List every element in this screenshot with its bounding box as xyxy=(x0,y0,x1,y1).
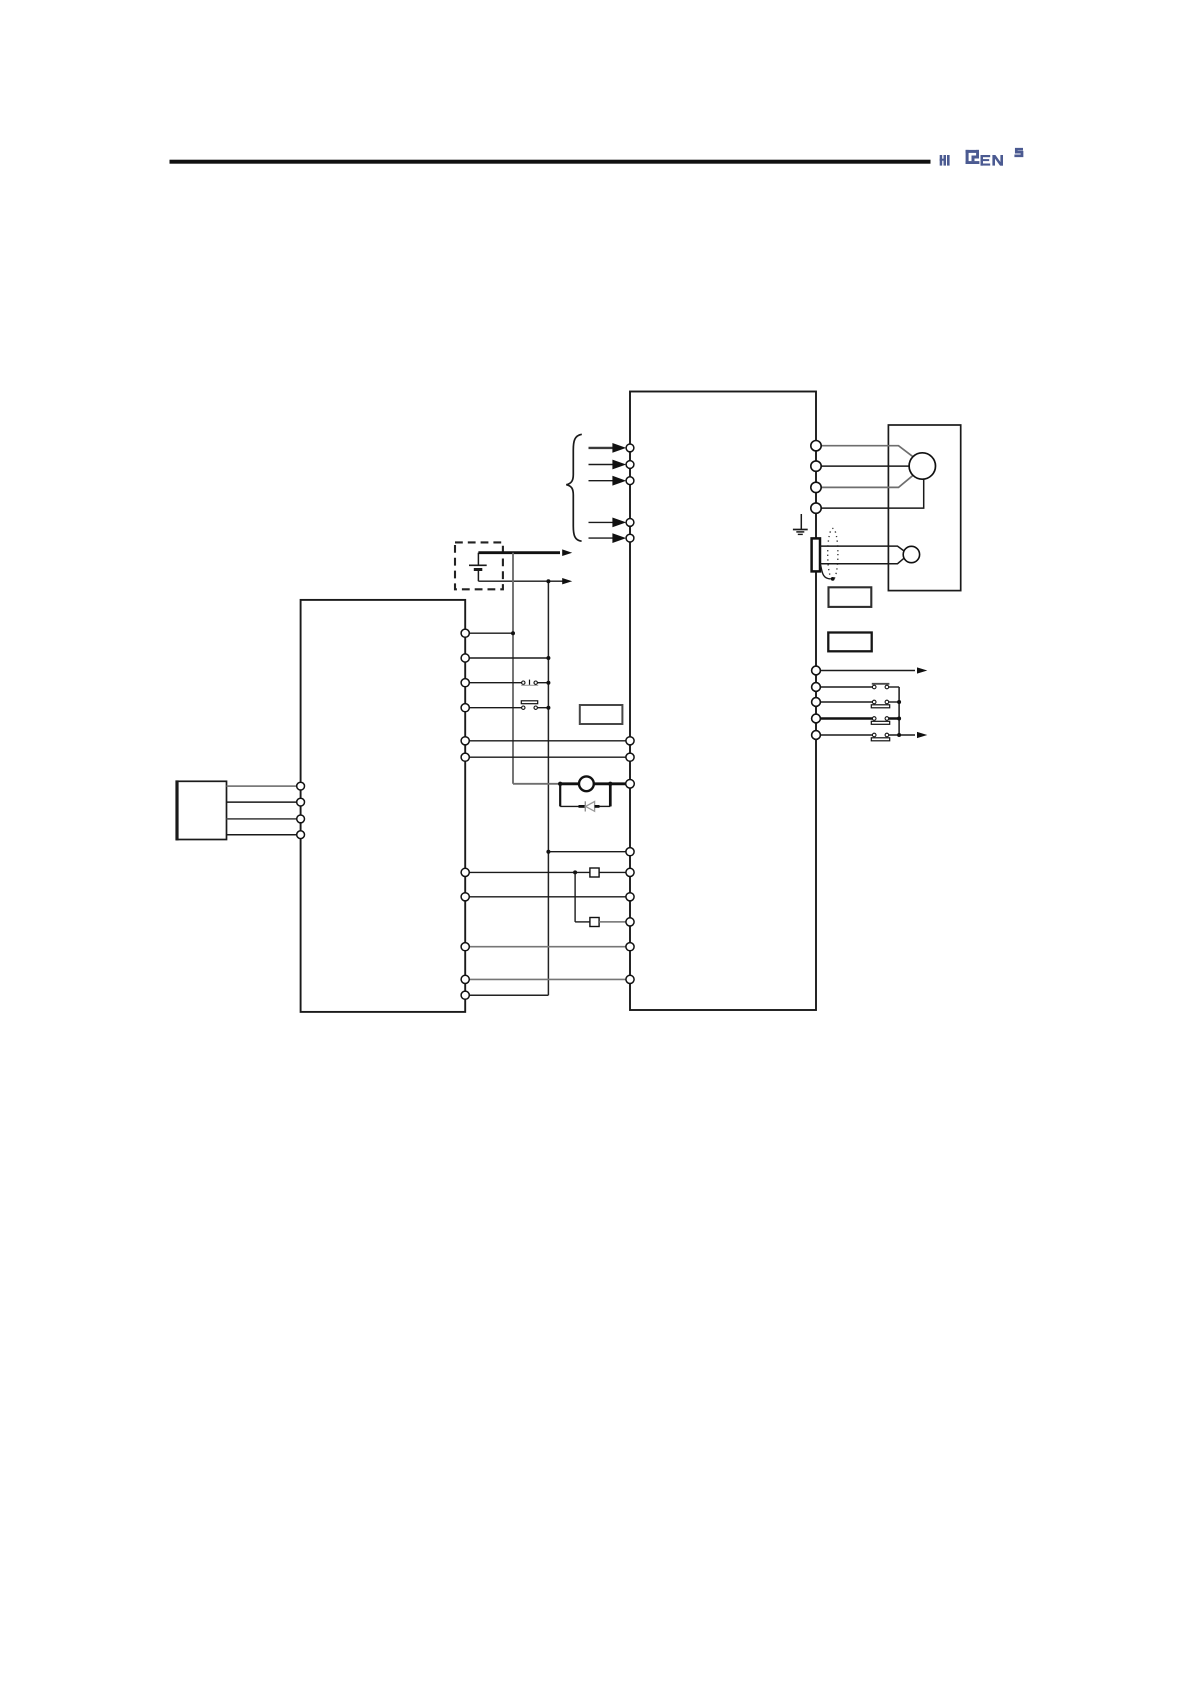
terminals: controller left edge xyxy=(297,782,305,838)
wire controller row3 + switch S1 xyxy=(465,680,550,686)
header rule xyxy=(170,160,931,164)
host device box U3 xyxy=(175,780,226,840)
ground symbol xyxy=(793,514,808,534)
wire row 921.9 with resistor square R2 xyxy=(575,872,630,926)
output wire row 670.5 xyxy=(821,667,928,673)
motor M xyxy=(909,453,935,479)
terminals: servo drive left edge xyxy=(626,444,635,984)
wire row 740.8 xyxy=(465,740,630,742)
wire pulse input 5 xyxy=(589,533,627,543)
wire row 851.7 xyxy=(546,850,630,854)
brace input group xyxy=(566,434,582,541)
encoder wires xyxy=(820,546,904,564)
wire row 872.4 with resistor square R1 xyxy=(465,868,630,877)
wire controller row4 + switch S2 xyxy=(465,701,550,710)
diode D1 flyback xyxy=(560,784,610,812)
wire pulse input 2 xyxy=(589,460,627,470)
encoder E xyxy=(903,546,919,562)
contact K4 row 735 + arrow xyxy=(821,732,928,741)
contact K1 row 687 xyxy=(821,684,900,689)
wire pulse input 3 xyxy=(589,476,627,486)
motor box M1 xyxy=(888,425,960,591)
wire controller row1 xyxy=(465,631,515,635)
label box LB1 xyxy=(580,705,623,724)
cable shield (dotted ellipse) xyxy=(828,528,838,579)
wire row 995.2 xyxy=(465,994,548,996)
wire controller row2 xyxy=(465,656,550,660)
terminals: controller right edge xyxy=(461,629,469,999)
wire row 979.4 xyxy=(465,978,630,980)
label box LB3 xyxy=(828,633,871,652)
contact K2 row 702 xyxy=(821,700,902,708)
logo HIGEN xyxy=(940,149,1023,165)
shield drain wire xyxy=(821,565,835,581)
wire vertical battery minus rail xyxy=(547,581,549,995)
battery B1 dashed enclosure xyxy=(455,542,503,589)
wire vertical battery plus rail xyxy=(512,553,514,784)
label box LB2 xyxy=(829,587,872,607)
wire battery plus (bold arrow) xyxy=(478,549,572,556)
wire row 896.8 xyxy=(465,896,630,898)
servo drive box U1 xyxy=(630,392,816,1011)
relay RY1 brake xyxy=(513,776,630,791)
wire row 946.7 xyxy=(465,946,630,948)
terminals: servo drive right edge xyxy=(811,441,821,740)
wire row 757.2 xyxy=(465,756,630,758)
motor wires U V W E xyxy=(816,446,924,508)
contact bus xyxy=(898,687,900,735)
host device wires xyxy=(227,786,301,835)
wire pulse input 4 xyxy=(589,518,627,528)
contact K3 row 718.5 (bold) xyxy=(821,717,902,725)
wire pulse input 1 xyxy=(589,443,627,453)
battery B1 xyxy=(469,553,487,582)
encoder connector CN2 xyxy=(812,538,820,571)
junction battery minus xyxy=(546,579,550,583)
wire battery minus (arrow) xyxy=(478,578,572,584)
controller box U2 xyxy=(301,600,466,1012)
